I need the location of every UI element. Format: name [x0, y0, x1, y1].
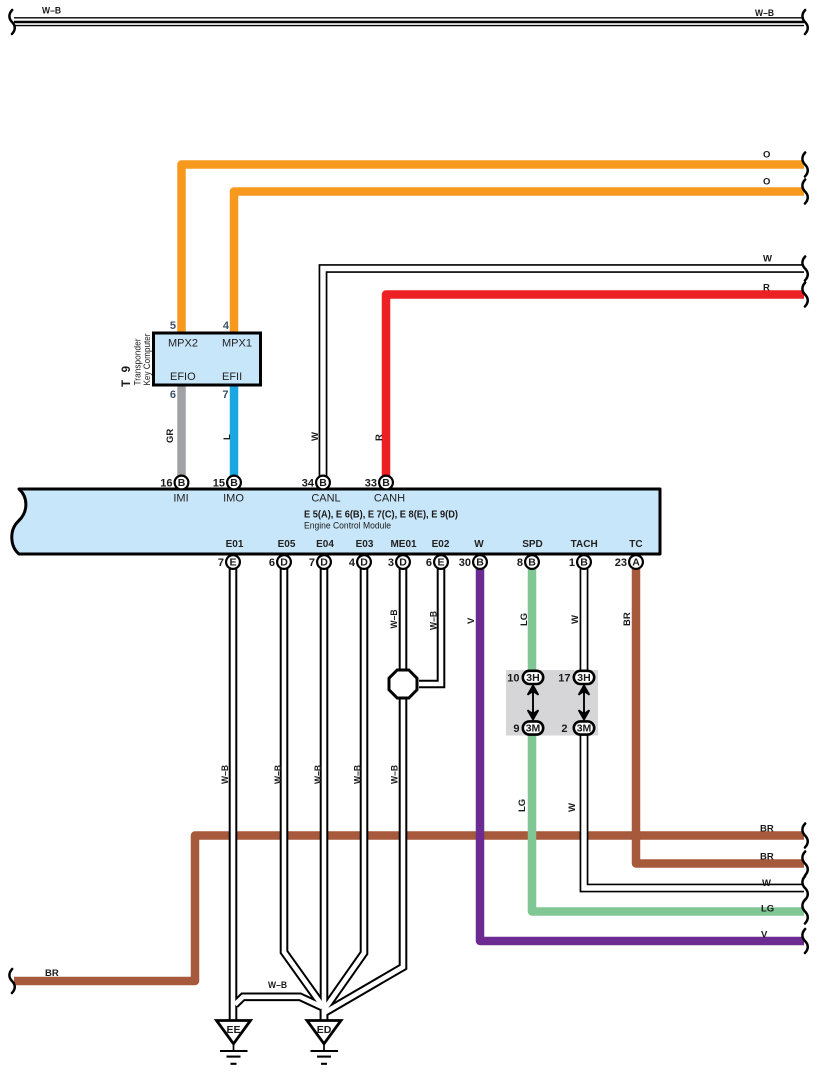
svg-text:IMI: IMI [173, 493, 188, 505]
svg-text:3: 3 [388, 557, 394, 569]
svg-text:15: 15 [213, 478, 225, 490]
svg-text:BR: BR [760, 824, 774, 835]
svg-text:W: W [570, 615, 581, 624]
svg-text:D: D [399, 557, 407, 569]
svg-text:B: B [230, 477, 238, 489]
svg-text:Key Computer: Key Computer [142, 334, 152, 386]
svg-text:7: 7 [309, 557, 315, 569]
svg-text:8: 8 [517, 557, 523, 569]
svg-text:EE: EE [226, 1024, 240, 1036]
svg-text:D: D [320, 557, 328, 569]
svg-text:W–B: W–B [755, 8, 774, 19]
svg-text:W: W [762, 878, 771, 889]
svg-text:5: 5 [170, 320, 176, 332]
svg-text:GR: GR [165, 429, 176, 443]
svg-text:O: O [763, 150, 770, 161]
svg-text:1: 1 [569, 557, 575, 569]
svg-text:E: E [229, 557, 236, 569]
svg-text:30: 30 [459, 557, 471, 569]
svg-text:D: D [280, 557, 288, 569]
svg-text:TC: TC [629, 539, 642, 550]
svg-text:9: 9 [513, 723, 519, 735]
svg-text:W–B: W–B [268, 980, 287, 991]
svg-text:MPX2: MPX2 [168, 338, 198, 350]
svg-text:W–B: W–B [429, 611, 440, 630]
svg-text:7: 7 [222, 389, 228, 401]
svg-text:33: 33 [365, 478, 377, 490]
svg-text:BR: BR [622, 612, 633, 626]
svg-text:BR: BR [45, 968, 59, 979]
svg-text:W: W [567, 803, 578, 812]
svg-text:R: R [374, 434, 385, 441]
svg-text:ME01: ME01 [390, 539, 417, 550]
svg-text:IMO: IMO [223, 493, 244, 505]
svg-text:3M: 3M [577, 723, 592, 735]
svg-text:4: 4 [349, 557, 356, 569]
svg-text:B: B [528, 557, 536, 569]
svg-text:W: W [310, 432, 321, 441]
svg-text:TACH: TACH [571, 539, 598, 550]
svg-text:EFIO: EFIO [170, 371, 196, 383]
svg-text:V: V [466, 617, 477, 624]
svg-text:MPX1: MPX1 [222, 338, 252, 350]
svg-text:W–B: W–B [313, 765, 324, 784]
svg-text:4: 4 [223, 320, 230, 332]
svg-text:3H: 3H [526, 672, 539, 684]
svg-text:7: 7 [218, 557, 224, 569]
svg-text:LG: LG [761, 904, 774, 915]
svg-text:B: B [178, 477, 186, 489]
svg-text:6: 6 [269, 557, 275, 569]
svg-text:6: 6 [426, 557, 432, 569]
svg-text:V: V [761, 930, 768, 941]
svg-text:17: 17 [558, 673, 570, 685]
svg-text:E05: E05 [278, 539, 296, 550]
svg-text:B: B [319, 477, 327, 489]
svg-text:W–B: W–B [389, 609, 400, 628]
svg-text:E02: E02 [432, 539, 450, 550]
svg-text:10: 10 [507, 673, 519, 685]
svg-text:B: B [580, 557, 588, 569]
svg-text:LG: LG [517, 799, 528, 812]
svg-text:2: 2 [561, 723, 567, 735]
svg-text:W–B: W–B [42, 6, 61, 17]
svg-text:BR: BR [760, 852, 774, 863]
svg-text:B: B [382, 477, 390, 489]
svg-text:LG: LG [519, 613, 530, 626]
svg-text:A: A [632, 557, 640, 569]
svg-text:E: E [437, 557, 444, 569]
svg-text:B: B [476, 557, 484, 569]
svg-text:O: O [763, 177, 770, 188]
svg-text:SPD: SPD [522, 539, 543, 550]
svg-text:6: 6 [170, 389, 176, 401]
svg-text:ED: ED [317, 1024, 332, 1036]
svg-text:EFII: EFII [222, 371, 242, 383]
svg-text:3H: 3H [577, 672, 590, 684]
svg-text:W–B: W–B [390, 765, 401, 784]
svg-text:CANH: CANH [374, 493, 405, 505]
svg-text:16: 16 [160, 478, 172, 490]
svg-text:Transponder: Transponder [133, 339, 143, 386]
svg-text:T 9: T 9 [121, 366, 133, 387]
svg-text:W: W [763, 254, 772, 265]
svg-text:Engine Control Module: Engine Control Module [304, 521, 391, 532]
svg-text:E03: E03 [356, 539, 374, 550]
svg-text:E 5(A), E 6(B), E 7(C), E 8(E): E 5(A), E 6(B), E 7(C), E 8(E), E 9(D) [304, 509, 458, 521]
svg-text:CANL: CANL [311, 493, 340, 505]
svg-text:E04: E04 [316, 539, 334, 550]
svg-text:23: 23 [615, 557, 627, 569]
svg-text:34: 34 [302, 478, 315, 490]
svg-text:W–B: W–B [273, 765, 284, 784]
svg-text:W–B: W–B [353, 765, 364, 784]
svg-text:D: D [360, 557, 368, 569]
svg-text:W–B: W–B [220, 765, 231, 784]
svg-text:W: W [474, 539, 484, 550]
svg-text:L: L [222, 434, 233, 440]
svg-text:3M: 3M [526, 723, 541, 735]
svg-text:R: R [763, 283, 770, 294]
svg-text:E01: E01 [226, 539, 244, 550]
